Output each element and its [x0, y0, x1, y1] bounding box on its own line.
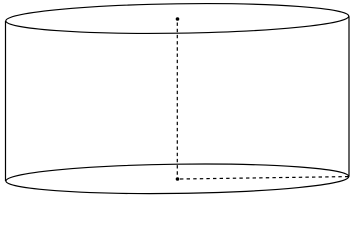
wire dashed axis [176, 23, 178, 176]
wire right side line [348, 16, 350, 176]
node top center dot [176, 17, 180, 21]
wire dashed radius [180, 177, 348, 179]
wire left side line [5, 21, 7, 181]
bottom ellipse of cylinder [6, 162, 349, 196]
node bottom center dot [176, 177, 180, 181]
top ellipse of cylinder [6, 1, 349, 35]
